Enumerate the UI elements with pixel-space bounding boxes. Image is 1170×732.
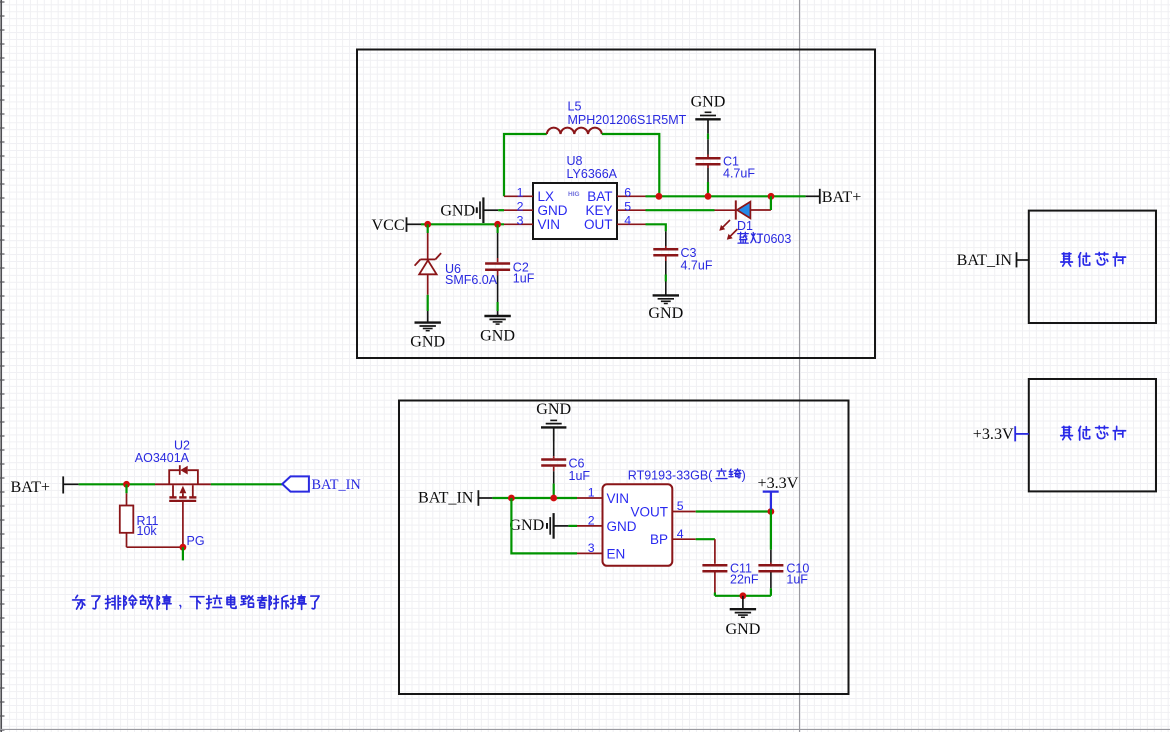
bottom section border box — [399, 401, 849, 695]
RT9193 pin 5 (VOUT) — [630, 499, 695, 519]
port BAT+ (left) — [11, 476, 79, 495]
wire L5 right to BAT node — [602, 134, 660, 196]
U2 value label AO3401A — [135, 451, 190, 465]
wire C11/C10 ground rail — [715, 595, 771, 597]
svg-text:EN: EN — [607, 546, 626, 561]
ground symbol below U6 — [410, 311, 445, 351]
wire PG stub — [182, 547, 184, 560]
junction node VIN/EN — [508, 495, 515, 502]
svg-text:BAT_IN: BAT_IN — [957, 252, 1013, 269]
C2 value label 1uF — [513, 272, 535, 286]
junction node VOUT — [768, 508, 775, 515]
D1 reference label — [737, 219, 753, 233]
inductor L5 — [547, 128, 602, 134]
wire OUT to C3 — [646, 224, 666, 231]
RT9193 pin 3 (EN) — [577, 541, 625, 561]
wire BP to C11 — [696, 538, 715, 540]
junction node BAT/C1 — [705, 193, 712, 200]
svg-text:+3.3V: +3.3V — [973, 426, 1014, 443]
RT9193 pin 1 (VIN) — [577, 486, 629, 506]
power port +3.3V (right) — [973, 426, 1029, 443]
C10 value label 1uF — [786, 572, 808, 586]
C6 value label 1uF — [569, 469, 591, 483]
svg-text:MPH201206S1R5MT: MPH201206S1R5MT — [568, 113, 687, 127]
svg-text:5: 5 — [677, 499, 684, 513]
C10 reference label — [786, 561, 809, 575]
svg-text:GND: GND — [607, 519, 637, 534]
port BAT_IN (bottom) — [418, 490, 492, 507]
C3 reference label — [681, 246, 697, 260]
port BAT_IN (pentagon) — [282, 476, 360, 493]
svg-text:KEY: KEY — [585, 203, 612, 218]
svg-text:2: 2 — [588, 514, 595, 528]
capacitor C2 — [485, 224, 510, 311]
svg-text:GND: GND — [538, 203, 568, 218]
C1 reference label — [723, 154, 739, 168]
svg-text:3: 3 — [517, 214, 524, 228]
C3 value label 4.7uF — [681, 259, 713, 273]
svg-text:4.7uF: 4.7uF — [723, 167, 755, 181]
svg-text:BAT+: BAT+ — [822, 189, 861, 206]
junction node VIN/C6 — [550, 495, 557, 502]
C1 value label 4.7uF — [723, 167, 755, 181]
svg-text:U8: U8 — [567, 154, 583, 168]
U8 pin 3 (VIN) — [504, 214, 560, 232]
ground symbol above C6 — [536, 401, 571, 441]
svg-text:1uF: 1uF — [513, 272, 535, 286]
svg-text:4.7uF: 4.7uF — [681, 259, 713, 273]
svg-text:HIG: HIG — [568, 191, 580, 198]
junction node ground rail — [740, 592, 747, 599]
U8 pin 5 (KEY) — [585, 200, 645, 218]
wire BAT rail — [646, 195, 806, 197]
ground symbol above C1 — [691, 94, 726, 134]
svg-text:GND: GND — [648, 305, 683, 322]
wire LX to L5 left — [504, 134, 547, 196]
svg-text:LX: LX — [538, 189, 555, 204]
svg-text:10k: 10k — [137, 524, 158, 538]
svg-text:BAT_IN: BAT_IN — [312, 477, 361, 493]
svg-text:0603: 0603 — [764, 232, 792, 246]
svg-text:GND: GND — [691, 94, 726, 111]
U8 reference label — [567, 154, 583, 168]
wire U2 drain to BAT_IN port — [211, 483, 282, 485]
svg-text:6: 6 — [624, 186, 631, 200]
svg-text:LY6366A: LY6366A — [567, 167, 618, 181]
svg-text:BAT: BAT — [587, 189, 612, 204]
U8 value label LY6366A — [567, 167, 618, 181]
junction node VCC/U6 — [424, 221, 431, 228]
svg-text:GND: GND — [725, 621, 760, 638]
svg-text:): ) — [742, 469, 746, 483]
U2 reference label — [174, 439, 190, 453]
wire EN to VIN node — [511, 498, 577, 553]
svg-text:PG: PG — [187, 534, 205, 548]
capacitor C11 — [702, 539, 727, 596]
U8 internal marking HIG — [568, 191, 580, 198]
svg-text:GND: GND — [410, 334, 445, 351]
capacitor C10 — [758, 512, 783, 596]
svg-text:1uF: 1uF — [786, 572, 808, 586]
net label PG — [187, 534, 205, 548]
svg-text:AO3401A: AO3401A — [135, 451, 190, 465]
capacitor C3 — [653, 231, 678, 294]
C2 reference label — [513, 261, 529, 275]
U6 value label SMF6.0A — [445, 273, 498, 287]
voltage regulator U? RT9193 body — [603, 484, 673, 566]
resistor R11 — [120, 484, 183, 547]
svg-text:22nF: 22nF — [730, 572, 759, 586]
svg-text:VCC: VCC — [372, 217, 405, 234]
U8 pin 6 (BAT) — [587, 186, 645, 204]
svg-text:VOUT: VOUT — [630, 505, 668, 520]
power port +3.3V — [758, 475, 799, 512]
RT9193 pin 2 (GND) — [577, 514, 637, 534]
RT9193 pin 4 (BP) — [650, 527, 696, 547]
TVS diode U6 — [415, 224, 442, 311]
svg-text:5: 5 — [624, 200, 631, 214]
wire VOUT to +3.3V node — [696, 510, 771, 512]
R11 value label 10k — [137, 524, 158, 538]
other-chip box label (bottom) — [1061, 426, 1126, 440]
capacitor C6 — [541, 441, 566, 498]
junction node BAT/D1 — [768, 193, 775, 200]
other-chip box (+3.3V) — [1029, 379, 1156, 491]
wire VCC to VIN — [421, 223, 504, 225]
svg-text:1: 1 — [588, 486, 595, 500]
svg-text:4: 4 — [624, 214, 631, 228]
C11 value label 22nF — [730, 572, 759, 586]
port VCC — [372, 217, 422, 234]
ground symbol below C11/C10 — [725, 596, 760, 638]
R11 reference label — [137, 514, 159, 528]
port BAT+ (top) — [806, 189, 862, 206]
U6 reference label — [445, 262, 461, 276]
svg-text:SMF6.0A: SMF6.0A — [445, 273, 498, 287]
L5 value label MPH201206S1R5MT — [568, 113, 687, 127]
svg-text:1uF: 1uF — [569, 469, 591, 483]
U8 pin 1 (LX) — [504, 186, 554, 204]
port BAT_IN (right) — [957, 252, 1029, 269]
U8 pin 4 (OUT) — [584, 214, 646, 232]
D1 value label (blue LED 0603) — [738, 232, 792, 246]
ground symbol below C3 — [648, 295, 683, 322]
svg-text:BAT_IN: BAT_IN — [418, 490, 474, 507]
RT9193 value label RT9193-33GB(立锜) — [628, 469, 746, 483]
svg-text:GND: GND — [440, 203, 475, 220]
note text (troubleshooting note) — [73, 595, 319, 610]
wire BAT_IN to VIN — [492, 497, 577, 499]
capacitor C1 — [696, 134, 721, 197]
svg-text:2: 2 — [517, 200, 524, 214]
C6 reference label — [569, 457, 585, 471]
svg-text:3: 3 — [588, 541, 595, 555]
ground flag GND (U8 pin 2) — [440, 197, 504, 223]
U8 pin 2 (GND) — [504, 200, 568, 218]
svg-text:GND: GND — [480, 327, 515, 344]
svg-text:+3.3V: +3.3V — [758, 475, 799, 492]
wire KEY to D1 — [646, 209, 715, 211]
sheet boundary horizontal line — [0, 728, 1170, 730]
LED D1 — [715, 196, 771, 239]
junction node BAT+/R11 — [123, 481, 130, 488]
svg-text:4: 4 — [677, 527, 684, 541]
svg-text:L5: L5 — [568, 100, 582, 114]
svg-text:BP: BP — [650, 532, 668, 547]
junction node PG — [180, 544, 187, 551]
other-chip box (BAT_IN) — [1029, 211, 1156, 323]
C11 reference label — [730, 561, 752, 575]
junction node BAT/L5 — [656, 193, 663, 200]
svg-text:OUT: OUT — [584, 217, 613, 232]
wire BAT+ to U2 source — [79, 483, 155, 485]
L5 reference label — [568, 100, 582, 114]
ground symbol below C2 — [480, 311, 515, 344]
top section border box — [357, 50, 875, 359]
svg-text:D1: D1 — [737, 219, 753, 233]
other-chip box label (top) — [1061, 252, 1126, 266]
svg-text:VIN: VIN — [607, 491, 630, 506]
svg-text:RT9193-33GB(: RT9193-33GB( — [628, 469, 713, 483]
svg-text:GND: GND — [509, 517, 544, 534]
ground flag GND (RT9193 pin 2) — [509, 513, 577, 539]
svg-text:BAT+: BAT+ — [11, 479, 50, 496]
junction node VCC/C2 — [494, 221, 501, 228]
svg-text:GND: GND — [536, 401, 571, 418]
op-amp/IC U8 body — [533, 183, 617, 239]
svg-text:VIN: VIN — [538, 217, 561, 232]
transistor U2 (P-MOSFET AO3401A) — [155, 465, 211, 547]
sheet left ruler edge — [0, 0, 5, 732]
sheet boundary vertical line — [799, 0, 801, 732]
svg-text:1: 1 — [517, 186, 524, 200]
